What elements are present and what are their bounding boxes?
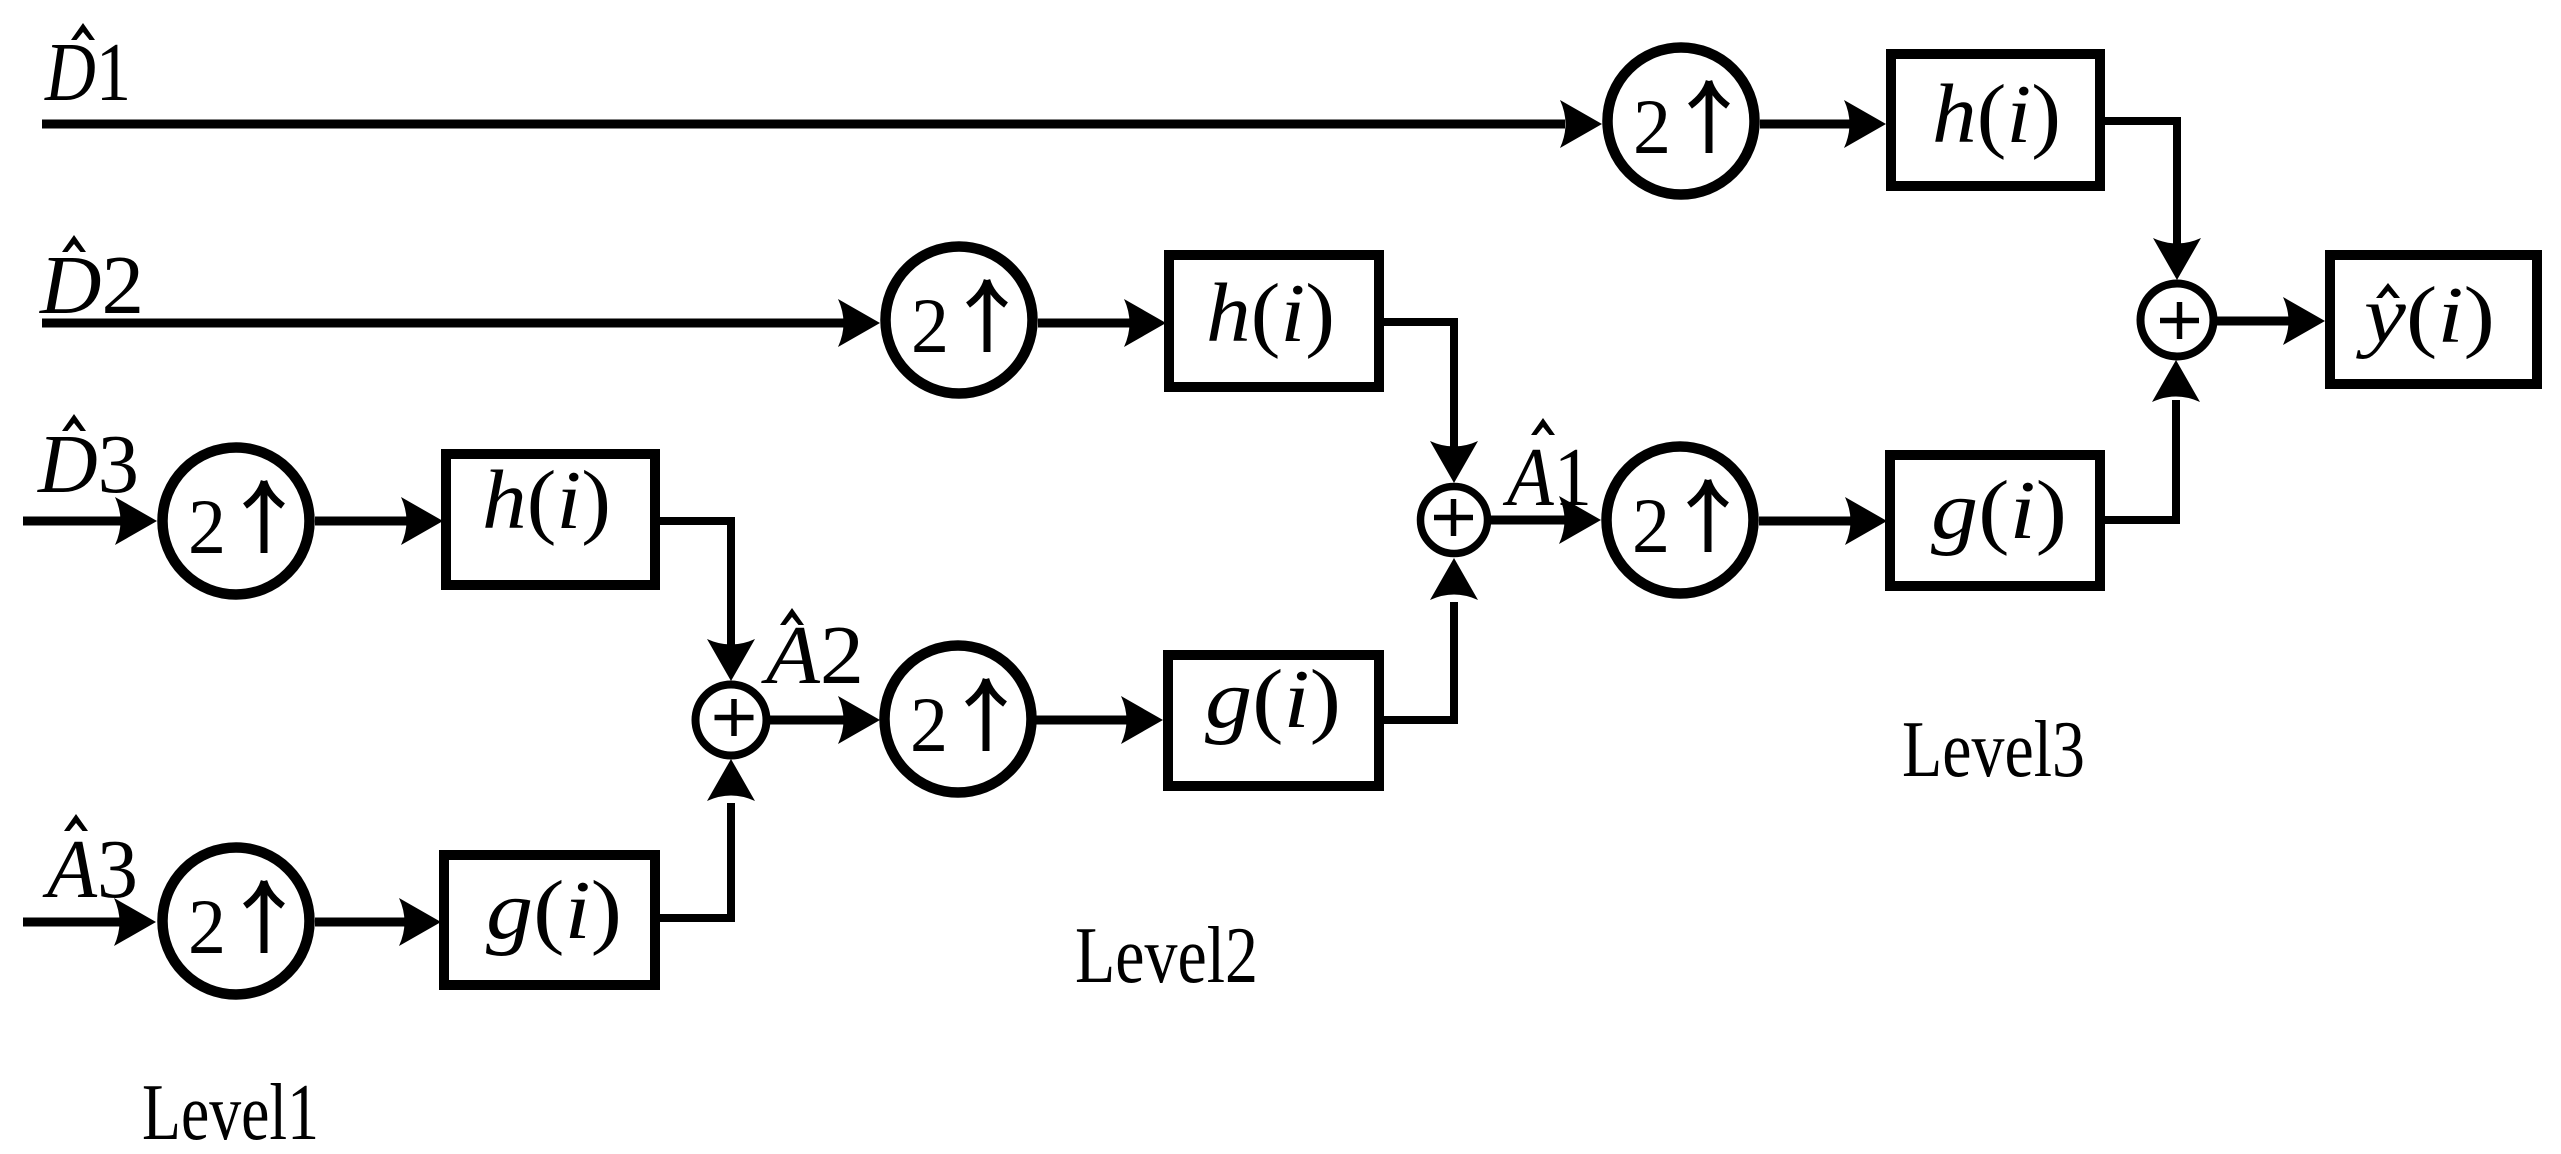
upsampler U1 (2 up) (1608, 48, 1755, 195)
wire A3 input (23, 898, 156, 946)
output box y(i) (2330, 255, 2537, 384)
wire U4 to G4 (1036, 696, 1163, 744)
svg-text:y(i): y(i) (2356, 272, 2495, 360)
upsampler U5 (2 up) (1607, 447, 1754, 594)
svg-text:2: 2 (1632, 482, 1670, 569)
svg-text:2: 2 (910, 681, 948, 768)
svg-text:2: 2 (911, 282, 949, 369)
svg-text:2: 2 (188, 883, 226, 970)
svg-text:D1: D1 (44, 26, 131, 119)
wire G6 to summer S3 (651, 759, 755, 918)
wire U6 to G6 (315, 898, 441, 946)
svg-text:A2: A2 (761, 609, 864, 702)
wire D3 input (23, 497, 157, 545)
wire D2 input (42, 299, 880, 347)
svg-text:g(i): g(i) (1931, 464, 2067, 557)
node A2 label (761, 608, 864, 702)
wire G5 to summer S1 (2096, 360, 2200, 520)
upsampler U4 (2 up) (885, 646, 1032, 793)
svg-text:g(i): g(i) (486, 864, 622, 957)
svg-text:h(i): h(i) (1206, 267, 1335, 360)
svg-text:D2: D2 (39, 239, 144, 332)
svg-text:A3: A3 (42, 823, 138, 916)
upsampler U3 (2 up) (163, 448, 310, 595)
filter H3 h(i) (446, 454, 655, 585)
filter G4 g(i) (1168, 653, 1379, 786)
svg-text:g(i): g(i) (1205, 653, 1341, 746)
filter H1 h(i) (1891, 54, 2100, 186)
wire S2 to U5 (1491, 496, 1601, 544)
wire U5 to G5 (1759, 497, 1887, 545)
wire H1 to summer S1 (2100, 121, 2201, 280)
svg-text:h(i): h(i) (1932, 68, 2061, 161)
wire G4 to summer S2 (1379, 558, 1478, 720)
wire U1 to H1 (1760, 100, 1886, 148)
filter H2 h(i) (1169, 255, 1379, 387)
wire H3 to summer S3 (651, 521, 755, 681)
wire S1 to output (2217, 297, 2325, 345)
node D2 label (39, 235, 144, 332)
svg-text:h(i): h(i) (482, 454, 611, 547)
node A3 label (42, 814, 138, 916)
svg-text:2: 2 (1633, 83, 1671, 170)
upsampler U2 (2 up) (886, 247, 1033, 394)
node A1 label (1502, 418, 1592, 524)
wire H2 to summer S2 (1374, 322, 1478, 483)
upsampler U6 (2 up) (163, 848, 310, 995)
filter G6 g(i) (444, 855, 655, 985)
wire S3 to U4 (770, 696, 880, 744)
svg-text:Level3: Level3 (1902, 706, 2085, 794)
node D3 label (37, 414, 139, 511)
summer S3 (696, 685, 767, 756)
wire U2 to H2 (1038, 299, 1166, 347)
svg-text:D3: D3 (37, 418, 139, 511)
svg-text:2: 2 (188, 483, 226, 570)
summer S2 (1421, 487, 1488, 554)
filter G5 g(i) (1890, 455, 2100, 586)
node D1 label (44, 23, 131, 119)
wire U3 to H3 (315, 497, 443, 545)
svg-text:Level2: Level2 (1075, 912, 1258, 1000)
svg-text:Level1: Level1 (142, 1069, 319, 1154)
summer S1 (2141, 284, 2214, 357)
wire D1 input (42, 100, 1602, 148)
